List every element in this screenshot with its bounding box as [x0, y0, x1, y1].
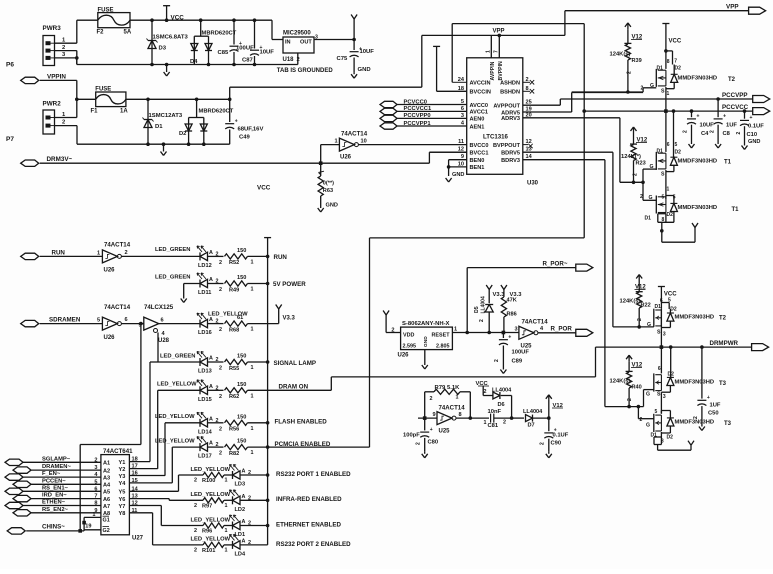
svg-text:1: 1 — [251, 393, 254, 399]
svg-text:A2: A2 — [103, 468, 110, 474]
svg-text:5A: 5A — [124, 30, 132, 36]
svg-text:ETHERNET ENABLED: ETHERNET ENABLED — [276, 521, 342, 528]
svg-text:+: + — [697, 114, 700, 120]
svg-text:VPP: VPP — [726, 4, 739, 11]
svg-text:F1: F1 — [91, 109, 99, 115]
svg-text:150: 150 — [237, 439, 246, 445]
svg-text:47K: 47K — [507, 298, 517, 304]
svg-text:6: 6 — [125, 317, 128, 323]
svg-text:G1: G1 — [103, 517, 110, 523]
svg-text:1: 1 — [486, 50, 492, 53]
svg-text:LED_GREEN: LED_GREEN — [155, 247, 190, 253]
svg-text:100pF: 100pF — [403, 433, 420, 439]
svg-text:124K(*): 124K(*) — [621, 154, 641, 160]
svg-text:D1: D1 — [655, 304, 662, 310]
svg-text:R101: R101 — [202, 548, 215, 554]
svg-text:D2: D2 — [667, 212, 674, 218]
svg-text:AEN1: AEN1 — [470, 124, 485, 130]
svg-text:C4: C4 — [701, 131, 709, 137]
svg-text:LED_YELLOW: LED_YELLOW — [191, 517, 231, 523]
svg-text:VCC: VCC — [171, 15, 185, 22]
svg-text:PCCVPP1: PCCVPP1 — [404, 121, 432, 127]
svg-text:PCCVCC1: PCCVCC1 — [404, 106, 432, 112]
svg-text:C87: C87 — [242, 58, 254, 64]
svg-text:2: 2 — [640, 417, 643, 423]
svg-text:2: 2 — [94, 457, 97, 463]
svg-text:2: 2 — [416, 442, 422, 445]
svg-text:10UF: 10UF — [700, 123, 715, 129]
svg-text:G2: G2 — [103, 528, 110, 534]
svg-text:+: + — [707, 395, 710, 401]
svg-text:A5: A5 — [103, 490, 110, 496]
svg-text:A: A — [209, 277, 213, 283]
svg-text:R68: R68 — [229, 327, 239, 333]
svg-text:AVPPOUT: AVPPOUT — [493, 104, 520, 110]
svg-text:19: 19 — [85, 523, 91, 529]
svg-text:FLASH ENABLED: FLASH ENABLED — [275, 418, 328, 425]
svg-text:0.1UF: 0.1UF — [553, 433, 569, 439]
svg-text:6: 6 — [161, 318, 164, 324]
svg-text:3: 3 — [663, 394, 666, 400]
svg-text:2: 2 — [219, 394, 222, 400]
svg-text:2: 2 — [710, 130, 716, 133]
svg-text:R97: R97 — [202, 503, 212, 509]
svg-text:124K(s): 124K(s) — [610, 52, 631, 58]
svg-text:G: G — [650, 83, 654, 89]
svg-text:PCCVPP0: PCCVPP0 — [404, 113, 431, 119]
svg-text:R86: R86 — [507, 312, 517, 318]
svg-text:R52: R52 — [229, 260, 239, 266]
svg-text:1SMC6.8AT3: 1SMC6.8AT3 — [153, 35, 189, 41]
svg-text:BSHDN: BSHDN — [500, 90, 520, 96]
svg-text:2: 2 — [194, 547, 197, 553]
svg-text:5V POWER: 5V POWER — [273, 281, 306, 288]
svg-text:74LCX125: 74LCX125 — [144, 304, 174, 311]
svg-text:3: 3 — [515, 327, 518, 333]
svg-text:G: G — [649, 195, 653, 201]
svg-text:G: G — [646, 423, 650, 429]
svg-text:PWR3: PWR3 — [43, 25, 62, 32]
svg-text:+: + — [723, 114, 726, 120]
svg-text:D2: D2 — [670, 307, 677, 313]
svg-text:Y2: Y2 — [119, 467, 126, 473]
svg-text:VCC: VCC — [257, 185, 271, 192]
svg-text:S: S — [657, 330, 661, 336]
svg-text:T2: T2 — [728, 77, 736, 83]
svg-text:AVCC1: AVCC1 — [470, 110, 489, 116]
svg-text:8: 8 — [667, 59, 670, 65]
svg-text:2: 2 — [484, 389, 487, 395]
svg-text:1: 1 — [667, 91, 670, 97]
svg-text:V3.3: V3.3 — [510, 292, 523, 298]
svg-text:G: G — [650, 164, 654, 170]
svg-text:DRMPWR: DRMPWR — [710, 340, 739, 347]
svg-text:RS_EN1~: RS_EN1~ — [42, 485, 69, 491]
svg-text:150: 150 — [237, 382, 246, 388]
svg-text:BEN0: BEN0 — [470, 158, 485, 164]
svg-text:+: + — [235, 119, 238, 125]
svg-text:Y1: Y1 — [119, 460, 126, 466]
svg-text:LD16: LD16 — [198, 330, 212, 336]
svg-text:61: 61 — [237, 315, 243, 321]
svg-text:8: 8 — [94, 501, 97, 507]
svg-text:S: S — [661, 89, 665, 95]
svg-text:ETHEN~: ETHEN~ — [42, 500, 66, 506]
svg-text:2: 2 — [540, 442, 546, 445]
svg-text:MMDF3N03HD: MMDF3N03HD — [675, 380, 715, 386]
svg-text:6: 6 — [94, 486, 97, 492]
svg-text:R79 5.1K: R79 5.1K — [435, 385, 461, 391]
svg-text:R56: R56 — [229, 427, 239, 433]
svg-text:P7: P7 — [6, 136, 14, 143]
svg-text:124K(s): 124K(s) — [610, 379, 631, 385]
svg-text:BVPPIN: BVPPIN — [498, 61, 504, 81]
svg-text:2: 2 — [479, 319, 485, 322]
svg-text:R_POR~: R_POR~ — [543, 260, 568, 267]
svg-text:2.805: 2.805 — [436, 344, 450, 350]
svg-text:2: 2 — [125, 250, 128, 256]
svg-text:VDD: VDD — [403, 333, 414, 339]
svg-text:2: 2 — [219, 327, 222, 333]
svg-text:LD2: LD2 — [235, 507, 246, 513]
svg-text:P6: P6 — [6, 62, 14, 69]
svg-text:V3.3: V3.3 — [283, 316, 296, 322]
svg-text:RUN: RUN — [274, 254, 288, 261]
svg-text:74ACT641: 74ACT641 — [103, 448, 133, 455]
svg-text:C80: C80 — [428, 440, 439, 446]
svg-text:5: 5 — [94, 479, 97, 485]
svg-text:C8: C8 — [723, 131, 731, 137]
svg-text:ADRV3: ADRV3 — [501, 116, 520, 122]
svg-text:AVCCIN: AVCCIN — [470, 81, 491, 87]
svg-text:R63: R63 — [323, 188, 333, 194]
svg-text:1: 1 — [251, 426, 254, 432]
svg-text:7: 7 — [94, 494, 97, 500]
svg-text:PCCEN~: PCCEN~ — [42, 478, 66, 484]
svg-text:2: 2 — [503, 420, 506, 426]
svg-text:RUN: RUN — [52, 250, 66, 257]
svg-text:150: 150 — [237, 414, 246, 420]
svg-text:2: 2 — [219, 260, 222, 266]
svg-text:BVCC1: BVCC1 — [470, 151, 489, 157]
svg-text:PWR2: PWR2 — [43, 101, 62, 108]
svg-text:PCCVPP: PCCVPP — [722, 92, 747, 99]
svg-text:T1: T1 — [732, 207, 740, 213]
svg-text:7: 7 — [674, 59, 677, 65]
svg-text:R96: R96 — [202, 529, 212, 535]
svg-text:LD15: LD15 — [198, 397, 212, 403]
svg-text:U26: U26 — [398, 353, 410, 359]
svg-text:1UF: 1UF — [726, 123, 737, 129]
svg-text:C75: C75 — [337, 56, 349, 62]
svg-text:U26: U26 — [340, 155, 352, 161]
svg-text:1: 1 — [225, 478, 228, 484]
svg-text:D7: D7 — [528, 423, 535, 429]
svg-text:U27: U27 — [132, 536, 144, 542]
svg-text:A: A — [209, 384, 213, 390]
svg-text:2: 2 — [640, 194, 643, 200]
svg-text:BDRV3: BDRV3 — [501, 158, 520, 164]
svg-text:74ACT14: 74ACT14 — [439, 405, 466, 412]
svg-text:150: 150 — [237, 275, 246, 281]
svg-text:2: 2 — [62, 120, 65, 126]
svg-text:BVPPOUT: BVPPOUT — [493, 143, 521, 149]
svg-text:11: 11 — [458, 139, 464, 145]
svg-text:PCVCC0: PCVCC0 — [404, 99, 428, 105]
svg-text:2: 2 — [430, 396, 433, 402]
svg-text:8: 8 — [662, 217, 665, 223]
svg-text:+: + — [750, 115, 753, 121]
svg-text:74ACT14: 74ACT14 — [104, 242, 131, 249]
svg-text:MMDF3N03HD: MMDF3N03HD — [678, 205, 718, 211]
svg-text:124K(s): 124K(s) — [620, 299, 641, 305]
svg-text:Y7: Y7 — [119, 504, 126, 510]
svg-text:F_EN~: F_EN~ — [42, 471, 61, 477]
svg-text:U26: U26 — [104, 335, 116, 341]
svg-text:INFRA-RED ENABLED: INFRA-RED ENABLED — [276, 496, 342, 503]
svg-text:2: 2 — [494, 359, 500, 362]
svg-text:LED_YELLOW: LED_YELLOW — [191, 492, 231, 498]
svg-text:1: 1 — [97, 250, 100, 256]
svg-text:C90: C90 — [551, 441, 562, 447]
svg-text:D3: D3 — [159, 46, 167, 52]
svg-text:1UF: 1UF — [710, 403, 721, 409]
svg-text:S: S — [661, 172, 665, 178]
svg-text:LED_YELLOW: LED_YELLOW — [191, 537, 231, 543]
svg-text:2: 2 — [693, 416, 699, 419]
svg-text:IN: IN — [285, 40, 291, 46]
svg-text:1: 1 — [335, 139, 338, 145]
svg-text:1: 1 — [251, 450, 254, 456]
svg-text:RESET: RESET — [432, 333, 451, 339]
svg-text:2: 2 — [219, 287, 222, 293]
svg-text:R_POR: R_POR — [551, 326, 573, 333]
svg-text:1: 1 — [251, 365, 254, 371]
svg-text:1: 1 — [225, 547, 228, 553]
svg-text:R100: R100 — [202, 478, 215, 484]
svg-text:AVPPIN: AVPPIN — [490, 61, 496, 80]
svg-text:MMDF3N03HD: MMDF3N03HD — [675, 315, 715, 321]
svg-text:LD14: LD14 — [198, 429, 213, 435]
svg-text:2: 2 — [637, 318, 643, 321]
svg-text:U25: U25 — [439, 429, 451, 435]
svg-text:CHINS~: CHINS~ — [42, 524, 65, 531]
svg-text:D1: D1 — [645, 216, 652, 222]
svg-text:RS232 PORT 1 ENABLED: RS232 PORT 1 ENABLED — [276, 471, 351, 478]
svg-text:R62: R62 — [229, 394, 239, 400]
svg-text:D6: D6 — [498, 402, 505, 408]
svg-text:D1: D1 — [155, 124, 163, 130]
svg-text:T2: T2 — [719, 316, 727, 322]
svg-text:VCC: VCC — [669, 39, 682, 45]
svg-text:D2: D2 — [675, 150, 682, 156]
svg-text:G: G — [647, 322, 651, 328]
svg-text:G: G — [646, 392, 650, 398]
svg-text:A: A — [209, 356, 213, 362]
svg-text:8: 8 — [459, 412, 462, 418]
svg-text:LD11: LD11 — [198, 290, 211, 296]
svg-text:6: 6 — [667, 142, 670, 148]
svg-text:C10: C10 — [747, 132, 758, 138]
svg-text:T1: T1 — [724, 160, 732, 166]
svg-text:74ACT14: 74ACT14 — [341, 131, 368, 138]
svg-text:DRM3V~: DRM3V~ — [47, 156, 73, 163]
svg-text:C85: C85 — [218, 50, 230, 56]
svg-text:2.595: 2.595 — [403, 344, 417, 350]
svg-text:VPPIN: VPPIN — [47, 74, 66, 81]
svg-text:+: + — [430, 427, 433, 433]
svg-text:IRD_EN~: IRD_EN~ — [42, 493, 67, 499]
svg-text:LED_GREEN: LED_GREEN — [155, 275, 190, 281]
svg-text:SGLAMP~: SGLAMP~ — [42, 456, 71, 462]
svg-text:5: 5 — [655, 409, 658, 415]
svg-text:MMDF3N03HD: MMDF3N03HD — [675, 420, 715, 426]
svg-text:2: 2 — [194, 528, 197, 534]
svg-text:A: A — [242, 519, 246, 525]
svg-text:LD17: LD17 — [198, 454, 212, 460]
svg-text:S: S — [657, 392, 661, 398]
svg-text:A7: A7 — [103, 504, 110, 510]
svg-text:A: A — [242, 538, 246, 544]
svg-text:T3: T3 — [719, 381, 727, 387]
svg-text:1: 1 — [251, 327, 254, 333]
svg-text:T3: T3 — [724, 421, 732, 427]
svg-text:A: A — [209, 416, 213, 422]
svg-text:LD12: LD12 — [198, 263, 212, 269]
svg-text:LTC1316: LTC1316 — [483, 134, 509, 141]
svg-text:5: 5 — [662, 195, 665, 201]
svg-text:68UF,16V: 68UF,16V — [238, 127, 264, 133]
svg-text:C50: C50 — [708, 411, 719, 417]
svg-text:LL4004: LL4004 — [492, 387, 512, 393]
svg-text:R82: R82 — [229, 451, 239, 457]
svg-text:GND: GND — [452, 172, 464, 178]
svg-text:GND: GND — [748, 139, 760, 145]
svg-text:S-8062ANY-NH-X: S-8062ANY-NH-X — [402, 321, 450, 327]
svg-text:C89: C89 — [512, 359, 523, 365]
svg-text:BVCCIN: BVCCIN — [470, 90, 491, 96]
svg-text:1: 1 — [251, 259, 254, 265]
svg-text:GND: GND — [358, 67, 371, 73]
svg-text:Y8: Y8 — [119, 511, 126, 517]
svg-text:2: 2 — [736, 132, 742, 135]
svg-text:2: 2 — [641, 86, 644, 92]
svg-text:1: 1 — [225, 503, 228, 509]
svg-text:2: 2 — [194, 503, 197, 509]
svg-text:BEN1: BEN1 — [470, 165, 485, 171]
svg-text:D2: D2 — [179, 131, 186, 137]
svg-text:7: 7 — [494, 50, 500, 53]
svg-text:Y6: Y6 — [119, 497, 126, 503]
svg-text:SDRAMEN: SDRAMEN — [49, 317, 81, 324]
svg-text:10nF: 10nF — [488, 409, 502, 415]
svg-text:LED_YELLOW: LED_YELLOW — [155, 438, 195, 444]
svg-text:MBRD620CT: MBRD620CT — [199, 109, 234, 115]
svg-text:C81: C81 — [488, 423, 499, 429]
svg-text:Y5: Y5 — [119, 490, 126, 496]
svg-text:LD13: LD13 — [198, 369, 212, 375]
svg-text:R39: R39 — [632, 58, 642, 64]
svg-text:5: 5 — [668, 298, 671, 304]
svg-text:LD4: LD4 — [235, 551, 246, 557]
svg-text:R40: R40 — [632, 385, 642, 391]
svg-text:R23: R23 — [636, 161, 646, 167]
svg-text:2: 2 — [683, 130, 689, 133]
svg-text:1: 1 — [225, 528, 228, 534]
svg-text:100UF: 100UF — [512, 350, 530, 356]
svg-text:AEN0: AEN0 — [470, 117, 485, 123]
svg-text:R22: R22 — [641, 303, 651, 309]
svg-text:BVCC0: BVCC0 — [470, 143, 489, 149]
svg-text:DRAMEN~: DRAMEN~ — [42, 464, 71, 470]
svg-text:GND: GND — [326, 203, 338, 209]
svg-text:LL4004: LL4004 — [523, 409, 543, 415]
svg-text:LED_YELLOW: LED_YELLOW — [191, 467, 231, 473]
svg-text:MBRD620CT: MBRD620CT — [202, 31, 237, 37]
svg-text:A4: A4 — [103, 483, 111, 489]
svg-text:3: 3 — [94, 465, 97, 471]
svg-text:74ACT14: 74ACT14 — [104, 304, 131, 311]
svg-text:150: 150 — [237, 248, 246, 254]
svg-text:BDRV5: BDRV5 — [501, 151, 520, 157]
svg-text:ASHDN: ASHDN — [500, 81, 520, 87]
svg-text:74ACT14: 74ACT14 — [522, 319, 549, 326]
svg-text:LD3: LD3 — [235, 482, 246, 488]
svg-text:D2: D2 — [667, 435, 674, 441]
svg-text:U26: U26 — [104, 268, 116, 274]
svg-text:LED_GREEN: LED_GREEN — [160, 354, 195, 360]
svg-text:1: 1 — [484, 420, 487, 426]
svg-text:5: 5 — [675, 142, 678, 148]
svg-text:R49: R49 — [229, 287, 239, 293]
svg-text:MIC29500: MIC29500 — [283, 31, 311, 37]
svg-text:2: 2 — [219, 451, 222, 457]
svg-text:5: 5 — [97, 318, 100, 324]
svg-text:A: A — [242, 469, 246, 475]
svg-text:OUT: OUT — [300, 40, 312, 46]
svg-text:2: 2 — [627, 398, 633, 401]
svg-text:1: 1 — [456, 395, 459, 401]
svg-text:Y3: Y3 — [119, 474, 126, 480]
svg-text:D2: D2 — [668, 372, 675, 378]
svg-text:U28: U28 — [158, 338, 170, 344]
svg-text:F2: F2 — [97, 30, 105, 36]
svg-text:LL4004: LL4004 — [481, 296, 487, 313]
svg-text:U18: U18 — [283, 57, 295, 63]
svg-text:VPP: VPP — [493, 29, 505, 35]
svg-text:1: 1 — [667, 187, 670, 193]
svg-text:MMDF3N03HD: MMDF3N03HD — [678, 159, 718, 165]
svg-text:+: + — [508, 335, 511, 341]
svg-text:9: 9 — [433, 412, 436, 418]
svg-text:R55: R55 — [229, 366, 239, 372]
svg-text:DRAM ON: DRAM ON — [279, 383, 309, 390]
svg-text:2: 2 — [194, 478, 197, 484]
svg-text:Y4: Y4 — [119, 481, 127, 487]
svg-text:D5: D5 — [474, 306, 480, 313]
svg-text:AVCC0: AVCC0 — [470, 103, 489, 109]
svg-text:SIGNAL LAMP: SIGNAL LAMP — [274, 360, 317, 367]
svg-text:MMDF3N03HD: MMDF3N03HD — [678, 76, 718, 82]
svg-text:10UF: 10UF — [260, 50, 275, 56]
svg-text:U30: U30 — [527, 181, 539, 187]
svg-text:A: A — [242, 494, 246, 500]
svg-text:10UF: 10UF — [360, 49, 375, 55]
svg-text:A1: A1 — [103, 461, 110, 467]
svg-text:RS232 PORT 2 ENABLED: RS232 PORT 2 ENABLED — [276, 541, 351, 548]
svg-text:RS_EN2~: RS_EN2~ — [42, 507, 69, 513]
svg-text:C49: C49 — [239, 135, 251, 141]
